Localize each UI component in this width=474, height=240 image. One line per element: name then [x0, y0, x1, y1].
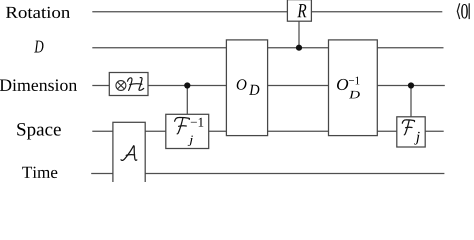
gate A box — [113, 122, 145, 184]
wire control Dimension to Fj-inv — [186, 86, 188, 115]
gate tensor symbol — [116, 81, 126, 91]
node control dot on D — [296, 45, 302, 51]
gate H label — [128, 78, 144, 91]
gate OD-inverse label — [337, 77, 360, 99]
wire control Dimension to Fj — [410, 86, 412, 117]
gate Fj-inverse box — [166, 114, 209, 148]
node control dot on Dimension left — [184, 82, 190, 88]
gate OD box — [226, 40, 267, 136]
gate OD label — [237, 79, 260, 95]
gate R box — [287, 0, 311, 21]
node control dot on Dimension right — [408, 82, 414, 88]
wire control R to D — [298, 21, 300, 48]
wire Time — [91, 173, 444, 175]
label D — [34, 41, 43, 53]
wire Rotation — [92, 11, 442, 13]
node measurement bra0 — [457, 3, 469, 19]
wire Space — [92, 130, 443, 132]
label Rotation — [6, 7, 70, 18]
gate OD-inverse box — [329, 40, 378, 136]
gate Fj box — [397, 117, 425, 147]
wire D — [92, 47, 443, 49]
label Space — [17, 123, 61, 140]
gate A label — [121, 146, 137, 161]
gate Fj-inverse label — [175, 117, 204, 146]
label Time — [22, 167, 57, 179]
gate Fj label — [402, 120, 419, 145]
gate R label — [297, 4, 306, 17]
wire Dimension — [92, 85, 445, 87]
label Dimension — [0, 79, 77, 91]
gate tensor-H box — [109, 73, 148, 96]
